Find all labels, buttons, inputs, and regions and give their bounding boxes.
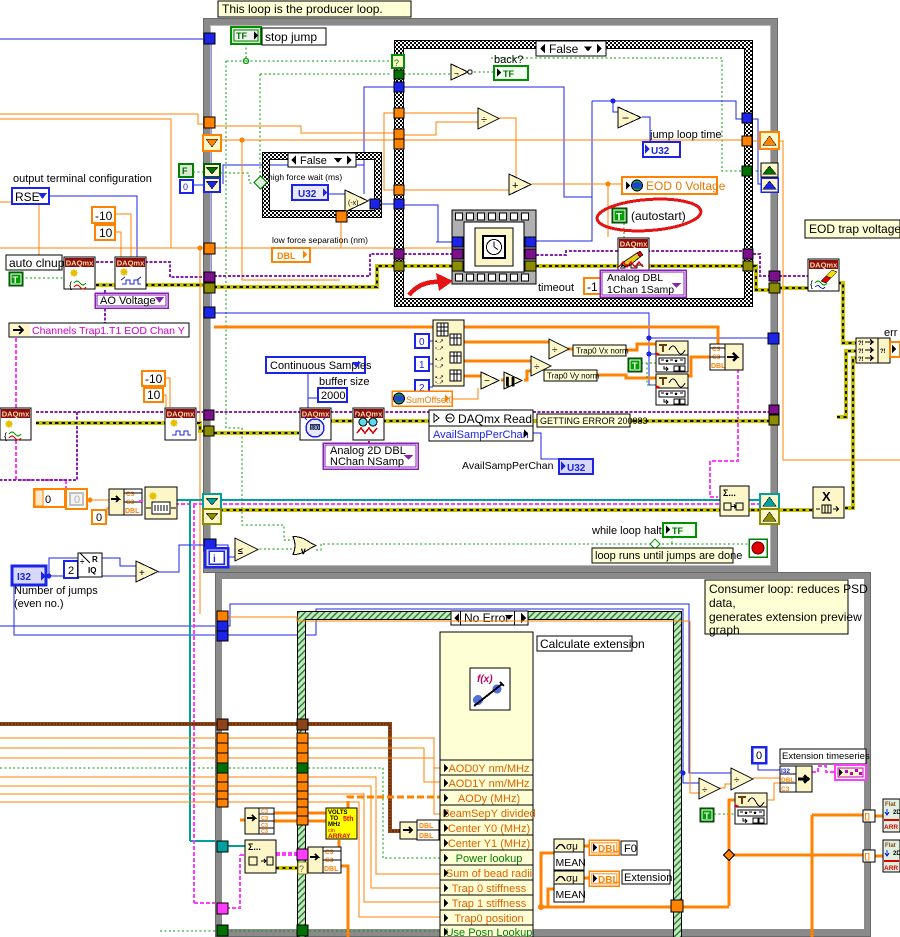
svg-text:AODy (MHz): AODy (MHz)	[458, 793, 520, 805]
svg-text:Extension: Extension	[624, 872, 672, 884]
svg-text:Flat: Flat	[885, 802, 896, 808]
svg-text:Number of jumps: Number of jumps	[14, 585, 98, 597]
svg-text:Trap 0 stiffness: Trap 0 stiffness	[452, 883, 527, 895]
svg-text:C3: C3	[261, 829, 268, 835]
svg-text:TF: TF	[503, 69, 514, 79]
svg-text:Σ...: Σ...	[248, 842, 261, 852]
svg-text:Sum of bead radii: Sum of bead radii	[446, 868, 532, 880]
svg-text:+: +	[139, 568, 145, 579]
svg-text:÷: ÷	[734, 775, 740, 786]
svg-text:C3: C3	[261, 809, 268, 815]
svg-text:÷: ÷	[552, 345, 558, 356]
svg-text:−: −	[484, 376, 490, 387]
svg-text:Flat: Flat	[885, 843, 896, 849]
svg-text:▪.↗: ▪.↗	[435, 357, 444, 363]
svg-text:stop jump: stop jump	[265, 30, 317, 44]
svg-text:0: 0	[419, 337, 425, 348]
svg-text:False: False	[300, 155, 327, 167]
svg-text:F0: F0	[624, 843, 637, 855]
svg-text:Center Y0 (MHz): Center Y0 (MHz)	[448, 823, 530, 835]
svg-text:÷: ÷	[80, 557, 85, 566]
svg-text:graph: graph	[709, 623, 740, 637]
svg-text:2D: 2D	[893, 810, 900, 816]
svg-text:÷: ÷	[481, 114, 487, 126]
svg-text:ARR: ARR	[884, 865, 898, 872]
svg-text:{: {	[4, 431, 7, 441]
svg-text:2: 2	[68, 565, 74, 577]
svg-text:U32: U32	[651, 146, 670, 157]
svg-text:generates extension preview: generates extension preview	[709, 610, 862, 624]
svg-text:DBL: DBL	[781, 777, 794, 784]
svg-text:back?: back?	[494, 54, 523, 66]
svg-text:Trap0 position: Trap0 position	[454, 913, 523, 925]
svg-text:▫.↗: ▫.↗	[435, 380, 444, 386]
svg-text:[]: []	[865, 812, 871, 821]
svg-text:I32: I32	[781, 768, 790, 775]
svg-text:▫.↗: ▫.↗	[435, 346, 444, 352]
svg-text:Extension timeseries: Extension timeseries	[782, 751, 870, 762]
svg-text:GETTING ERROR 200983: GETTING ERROR 200983	[540, 416, 648, 426]
svg-text:[]: []	[865, 852, 871, 861]
svg-text:+: +	[512, 180, 518, 192]
svg-text:10: 10	[99, 226, 113, 240]
svg-text:This loop is the producer loop: This loop is the producer loop.	[222, 2, 383, 16]
svg-text:high force wait (ms): high force wait (ms)	[268, 172, 342, 182]
svg-text:AO Voltage: AO Voltage	[100, 295, 156, 307]
svg-text:-10: -10	[95, 209, 113, 223]
svg-text:EOD trap voltage: EOD trap voltage	[809, 222, 900, 236]
svg-text:i: i	[213, 554, 216, 565]
svg-text:{: {	[810, 279, 813, 289]
svg-text:X: X	[822, 489, 831, 504]
svg-text:while loop halt: while loop halt	[591, 525, 662, 537]
svg-text:EOD 0 Voltage: EOD 0 Voltage	[646, 179, 726, 193]
svg-text:▪.↗: ▪.↗	[435, 339, 444, 345]
svg-text:?!: ?!	[880, 349, 886, 355]
svg-text:C3: C3	[261, 816, 268, 822]
svg-text:¬: ¬	[454, 69, 459, 78]
svg-text:AvailSampPerChan: AvailSampPerChan	[433, 429, 529, 441]
svg-text:-1: -1	[587, 280, 598, 294]
svg-text:(even no.): (even no.)	[14, 598, 64, 610]
svg-text:Trap0 Vx norm: Trap0 Vx norm	[576, 347, 629, 356]
svg-text:DAQmx Read: DAQmx Read	[458, 412, 532, 426]
svg-text:U32: U32	[298, 189, 317, 200]
svg-text:F: F	[182, 166, 188, 176]
svg-text:output terminal configuration: output terminal configuration	[13, 173, 152, 185]
svg-text:R: R	[92, 555, 98, 564]
svg-text:TF: TF	[672, 526, 683, 536]
svg-text:▫.↗: ▫.↗	[435, 364, 444, 370]
svg-text:U32: U32	[567, 463, 586, 474]
svg-text:DBL: DBL	[419, 833, 434, 840]
svg-text:÷: ÷	[702, 785, 708, 796]
svg-text:?!: ?!	[858, 357, 864, 363]
svg-text:IQ: IQ	[88, 566, 96, 575]
svg-text:1: 1	[419, 360, 425, 371]
svg-text:2D: 2D	[893, 851, 900, 857]
svg-text:No Error: No Error	[464, 611, 509, 625]
svg-text:False: False	[549, 42, 579, 56]
svg-text:ARRAY: ARRAY	[328, 833, 351, 840]
svg-text:data,: data,	[709, 596, 736, 610]
svg-text:TF: TF	[236, 31, 247, 41]
svg-text:Trap0 Vy norm: Trap0 Vy norm	[547, 372, 600, 381]
svg-text:timeout: timeout	[538, 282, 574, 294]
svg-text:Analog DBL: Analog DBL	[607, 272, 663, 284]
svg-text:0: 0	[74, 494, 80, 506]
svg-text:≤: ≤	[238, 546, 243, 556]
svg-text:130: 130	[311, 426, 320, 432]
svg-text:?!: ?!	[858, 349, 864, 355]
svg-text:T: T	[632, 361, 638, 371]
svg-text:T: T	[616, 212, 622, 223]
svg-text:buffer size: buffer size	[319, 376, 370, 388]
svg-text:Center Y1 (MHz): Center Y1 (MHz)	[448, 838, 530, 850]
svg-text:T: T	[704, 811, 710, 821]
svg-text:0: 0	[183, 182, 188, 192]
svg-text:(-x): (-x)	[348, 200, 359, 207]
svg-text:Power lookup: Power lookup	[456, 853, 523, 865]
svg-text:NChan NSamp: NChan NSamp	[330, 456, 404, 468]
svg-text:÷: ÷	[534, 362, 540, 373]
svg-text:Use Posn Lookup: Use Posn Lookup	[446, 927, 533, 937]
svg-text:T: T	[13, 275, 19, 285]
svg-text:10: 10	[147, 388, 161, 402]
svg-text:2000: 2000	[321, 390, 345, 402]
svg-text:?: ?	[299, 864, 304, 874]
svg-text:Channels Trap1.T1 EOD Chan Y: Channels Trap1.T1 EOD Chan Y	[32, 325, 185, 337]
svg-text:0: 0	[756, 750, 762, 762]
svg-text:AvailSampPerChan: AvailSampPerChan	[462, 460, 554, 472]
svg-text:I32: I32	[17, 572, 31, 583]
svg-text:err: err	[884, 327, 898, 339]
svg-text:AOD0Y nm/MHz: AOD0Y nm/MHz	[448, 763, 529, 775]
svg-text:-10: -10	[145, 372, 163, 386]
svg-text:RSE: RSE	[15, 190, 40, 204]
svg-text:?: ?	[394, 58, 399, 68]
svg-text:ARR: ARR	[884, 824, 898, 831]
svg-text:AOD1Y nm/MHz: AOD1Y nm/MHz	[448, 778, 529, 790]
svg-text:DBL: DBL	[277, 251, 296, 261]
svg-text:Trap 1 stiffness: Trap 1 stiffness	[452, 898, 527, 910]
svg-text:1Chan 1Samp: 1Chan 1Samp	[607, 284, 674, 296]
svg-text:BeamSepY divided: BeamSepY divided	[442, 808, 535, 820]
svg-text:5th: 5th	[343, 816, 354, 823]
svg-text:Calculate extension: Calculate extension	[540, 637, 645, 651]
svg-text:0: 0	[45, 494, 51, 506]
svg-text:low force separation (nm): low force separation (nm)	[272, 235, 368, 245]
svg-text:▌▌: ▌▌	[506, 376, 517, 387]
svg-text:C3: C3	[781, 786, 790, 793]
svg-text:{: {	[69, 280, 72, 290]
svg-text:0: 0	[96, 512, 102, 524]
svg-text:−: −	[622, 111, 629, 125]
svg-text:loop runs until jumps are done: loop runs until jumps are done	[595, 550, 742, 562]
svg-text:(autostart): (autostart)	[631, 209, 686, 223]
svg-text:auto clnup: auto clnup	[9, 256, 65, 270]
svg-text:Consumer loop: reduces PSD: Consumer loop: reduces PSD	[709, 582, 868, 596]
svg-text:jump loop time: jump loop time	[649, 129, 722, 141]
svg-text:f(x): f(x)	[477, 674, 493, 685]
svg-text:?!: ?!	[858, 341, 864, 347]
svg-text:Σ...: Σ...	[723, 488, 736, 498]
svg-text:∨: ∨	[300, 546, 307, 556]
svg-text:DBL: DBL	[419, 823, 434, 830]
